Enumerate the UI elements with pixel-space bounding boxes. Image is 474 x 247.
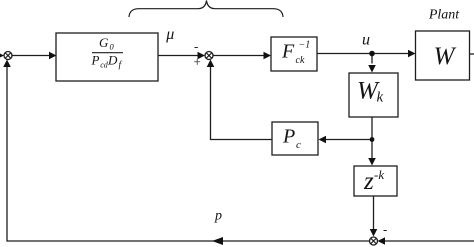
- svg-text:ck: ck: [296, 55, 305, 66]
- svg-text:Plant: Plant: [428, 8, 460, 23]
- svg-text:P: P: [91, 52, 100, 67]
- svg-text:D: D: [107, 52, 118, 67]
- svg-text:f: f: [119, 60, 123, 71]
- svg-text:0: 0: [110, 42, 115, 52]
- svg-text:F: F: [281, 41, 295, 63]
- svg-text:c: c: [296, 139, 301, 151]
- svg-text:−1: −1: [299, 40, 311, 51]
- svg-text:-k: -k: [374, 167, 384, 182]
- svg-text:G: G: [99, 35, 109, 50]
- svg-text:P: P: [282, 126, 295, 148]
- svg-text:μ: μ: [165, 26, 174, 43]
- svg-text:k: k: [377, 90, 384, 106]
- svg-text:W: W: [434, 43, 457, 70]
- svg-text:p: p: [214, 209, 222, 224]
- svg-text:-: -: [194, 39, 198, 54]
- svg-text:-: -: [383, 222, 387, 237]
- svg-text:+: +: [194, 54, 201, 69]
- svg-text:z: z: [363, 168, 374, 195]
- svg-text:u: u: [362, 32, 370, 49]
